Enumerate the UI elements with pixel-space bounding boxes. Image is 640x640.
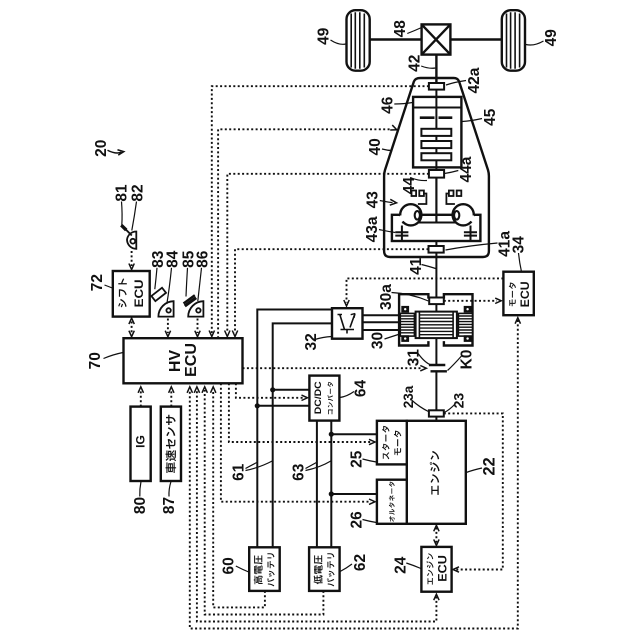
leader 86 [198,268,202,301]
leader 43 with arrow [380,201,393,203]
motor case 30 (top/bottom brackets and sides) [399,294,472,345]
gear element row 4 [421,153,451,160]
leader 80 [140,482,141,497]
svg-text:ECU: ECU [134,279,146,307]
junction dot (272.7,389.8) [270,387,275,392]
leader 42a [446,81,466,86]
leader 30 [385,335,399,340]
signal wire: sensor 23a to engine ECU [444,413,503,569]
stator winding terminals (right, filled squares) [464,306,472,342]
wire: LV line left (DC/DC to battery 62 left terminal) [316,421,318,548]
junction dot (257.3,405.8) [255,403,260,408]
arrowhead into HV ECU (44a line) [225,331,230,337]
wire: HV bus branch to DC/DC upper [273,389,310,391]
leader 64 [340,392,354,398]
arrowhead into HV ECU (motor ECU line) [187,387,192,393]
wire: HV bus branch to DC/DC lower [257,405,309,407]
drive shaft 42 (differential to transaxle) [435,55,437,83]
engine ECU text col1 (エンジン) [426,553,433,584]
signal wire: HV ECU to DC/DC converter [236,383,304,398]
leader 45 [462,119,482,122]
wire: three-phase line 2 (inverter to stator) [363,321,401,323]
shaft segment (rotor to clutch K0) [435,338,437,365]
vehicle speed sensor text (車速センサ) [166,415,177,473]
leader 61 (to both HV bus lines) [246,461,273,471]
signal wire: motor ECU to HV ECU (bottom loop) [190,320,518,629]
svg-text:84: 84 [165,250,182,268]
leader 24 [406,563,421,569]
svg-text:80: 80 [132,497,149,514]
leader 49 left [331,40,346,44]
leader 49 right [526,41,544,45]
leader 85 [186,268,188,297]
brake pedal icon 85/86 [184,295,204,316]
shaft T-bar into damper [402,178,471,223]
arrowhead into DC/DC [302,395,308,400]
leader 46 [394,103,412,105]
shift ECU text col1 (シフト) [118,278,127,307]
signal wire: resolver 30a to motor ECU [444,300,497,302]
wire: HV bus outer (inverter to battery 60 left terminal) [257,310,332,548]
clutch K0 31 (upper plate) [429,364,445,366]
svg-text:45: 45 [482,108,499,126]
output shaft 41 (housing to motor) [435,241,437,294]
arrowhead at clutch K0 [420,366,426,371]
shift lever icon 81/82 [121,225,136,249]
axle shaft (left wheel to differential) [369,38,422,40]
stator (left block with hatching) [400,313,414,336]
engine 22 (box) [407,421,466,524]
motor ECU text col1 (モータ) [509,283,516,307]
wire: LV branch to starter motor [331,433,377,435]
shift ECU 72 (box) [113,271,150,317]
leader 42 [421,66,435,68]
svg-text:30a: 30a [378,284,395,310]
signal wire: accelerator pedal sensors to HV ECU [167,319,169,334]
signal wire: battery 62 monitor to HV ECU [205,390,324,615]
svg-text:44a: 44a [458,156,475,182]
svg-text:42a: 42a [466,67,483,93]
leader 22 [466,468,482,473]
signal wire: sensor 42a to HV ECU [212,86,429,333]
svg-text:20: 20 [93,140,110,157]
axle shaft (differential to right wheel) [450,38,501,40]
svg-text:70: 70 [87,352,104,369]
alternator 26 (box) [377,480,407,524]
svg-text:ECU: ECU [437,555,449,582]
ignition switch IG 80 (box) [131,407,151,481]
leader 23 [444,404,455,413]
leader 62 [340,564,352,572]
damper pulley 43 (left circle) [399,204,421,225]
rotor 30 (laminated core) [416,312,457,339]
svg-text:87: 87 [161,497,178,514]
input shaft inside transaxle [435,89,437,222]
signal wire: vehicle speed sensor to HV ECU [170,390,172,407]
arrowhead into engine ECU right edge [453,567,459,572]
arrowhead into motor ECU bottom [515,318,520,324]
transaxle housing 40 (case outline) [384,78,489,257]
leader 48 [407,28,421,34]
signal wire: battery 60 monitor to HV ECU [213,390,265,607]
leader 26 [363,520,377,523]
svg-text:60: 60 [221,557,238,574]
arrowhead into HV ECU (engine ECU line) [194,387,199,393]
svg-text:41: 41 [408,257,425,275]
signal wire: sensor 44a to HV ECU [227,174,429,333]
leader 83 [155,268,157,289]
inverter IGBT symbol [338,314,356,334]
shaft segment (clutch to sensor 23a) [435,371,437,410]
svg-text:81: 81 [113,184,130,202]
svg-text:34: 34 [511,236,528,254]
svg-text:IG: IG [134,435,148,448]
arrowhead into starter motor [369,439,375,444]
svg-text:32: 32 [303,333,320,350]
DC/DC converter 64 (box) [309,376,339,421]
arrowhead into engine ECU bottom [434,594,439,600]
svg-text:ECU: ECU [520,281,532,307]
engine ECU 24 (box) [421,547,451,592]
arrowhead into inverter top [344,300,349,306]
arrowhead into HV ECU bottom (speed) [169,387,174,393]
leader 72 [105,285,113,288]
alternator text (オルタネータ) [389,482,395,522]
svg-text:DC/DC: DC/DC [313,381,324,414]
arrowhead into HV ECU (battery 60) [211,387,216,393]
svg-text:43: 43 [365,191,382,209]
leader K0 [448,356,462,371]
leader 84 [167,268,172,304]
arrowhead into HV ECU (accel) [165,331,170,337]
starter motor 25 (box) [377,421,407,465]
junction dot (331.3,434.2) [329,432,334,437]
arrowhead onto housing 40 [390,125,398,132]
signal wire: IG to HV ECU [140,390,142,407]
damper pulley 43 (right circle) [453,204,475,225]
svg-text:40: 40 [367,138,384,155]
inverter 32 (box) [332,308,363,339]
svg-text:43a: 43a [364,216,381,242]
leader 34 [519,253,522,272]
rotation sensor 41a [429,246,444,253]
svg-text:HV: HV [167,350,184,373]
high-voltage battery 60 (box) [249,547,280,591]
signal wire: motor ECU to inverter [347,278,504,302]
wheel 49 (left tire) [347,10,370,70]
arrowhead into HV ECU (42a line) [209,331,214,337]
signal wire: engine to engine ECU (bidirectional) [435,528,437,544]
leader 32 [315,337,332,340]
shaft segment (sensor 23a to engine) [435,417,437,421]
clutch plates 43a (left) [395,226,408,242]
svg-text:22: 22 [481,457,499,475]
leader 63 (to both LV lines) [306,461,331,471]
leader 25 [363,459,377,462]
leader 87 [169,482,171,497]
svg-text:61: 61 [231,463,248,481]
motor ECU 34 (box) [503,272,533,316]
svg-text:63: 63 [291,463,308,481]
leader 60 [236,566,249,572]
wire: LV line right (DC/DC to battery 62 right terminal) [330,421,332,548]
differential 48 (box with X) [422,24,451,54]
junction dot (331.3,494) [329,491,334,496]
arrowhead into HV ECU (41a line) [232,331,237,337]
svg-text:72: 72 [89,274,106,291]
DC/DC text col2 (コンバータ) [327,382,333,414]
svg-text:62: 62 [352,554,369,571]
leader 82 [132,202,137,231]
arrowhead into shift ECU top [129,264,134,270]
leader 81 [121,202,124,226]
wire: HV bus inner (inverter to battery 60 right terminal) [273,323,332,547]
leader 44a [445,171,459,174]
leader 43a [379,230,395,233]
leader 41a [446,243,498,250]
stator winding terminals (left, filled squares) [401,306,409,342]
arrowhead into HV ECU (brake) [195,331,200,337]
leader 30a [392,293,429,302]
battery 62 text col1 (低電圧) [314,555,323,584]
leader 23a [412,400,429,412]
resolver 30a (rotor position sensor) [435,294,437,298]
svg-text:46: 46 [379,96,396,114]
gear section 46 (top band divider) [413,107,461,109]
svg-text:86: 86 [195,250,212,268]
gear element row 2 [421,129,451,136]
crank angle sensor 23a [429,410,444,416]
wheel 49 (right tire) [502,10,525,70]
engine 22 label text (エンジン) [430,451,440,495]
rotation sensor 42a [429,83,444,90]
leader 40 [382,149,392,151]
svg-text:31: 31 [406,349,423,367]
signal wire: sensor 41a to HV ECU [235,249,429,333]
wire: three-phase line 3 (inverter to stator) [363,329,401,331]
signal wire: HV ECU to clutch K0 [243,367,422,369]
arrowhead into engine bottom [434,525,439,531]
signal wire: HV ECU to transmission 40 [218,129,391,338]
actuator squares 44 (right pair) [446,191,461,205]
signal wire: HV ECU to starter motor [229,383,371,442]
signal wire: HV ECU to alternator [221,383,371,501]
gear element row 3 [421,141,451,148]
battery 62 text col2 (バッテリ) [327,553,335,586]
leader 44 [412,178,428,181]
svg-text:24: 24 [393,556,410,574]
clutch plates 43a (right) [464,226,477,242]
svg-text:ECU: ECU [183,343,200,377]
gear bars (first row, solid) [420,116,453,119]
arrowhead into HV ECU bottom (IG) [138,387,143,393]
svg-text:42: 42 [406,55,423,72]
accelerator pedal icon 83/84 [151,288,173,317]
svg-text:82: 82 [129,184,146,201]
arrowhead into shift ECU bottom [129,318,134,324]
svg-text:49: 49 [543,29,560,47]
arrowhead into alternator [369,499,375,504]
low-voltage battery 62 (box) [309,547,340,591]
starter motor text col2 (モータ) [394,431,401,456]
leader 31 [417,352,430,365]
starter motor text col1 (スタータ) [382,426,389,459]
actuator squares 44 (left pair) [412,191,427,205]
signal wire: shift lever to shift ECU [131,251,133,266]
clutch mechanism frame (outer rect) [392,215,481,241]
vehicle speed sensor 87 (box) [161,407,181,481]
gear mechanism 45 (outer box) [413,97,461,167]
arrowhead into HV ECU top (shift line) [129,331,134,337]
wire: LV branch to alternator [331,493,377,495]
svg-text:64: 64 [352,380,369,398]
battery 60 text col1 (高電圧) [254,555,263,584]
arrowhead into HV ECU (battery 62) [202,387,207,393]
signal wire: shift ECU to HV ECU (bidirectional) [131,322,133,334]
clutch K0 31 (lower plate) [431,370,447,372]
rotation sensor 44a [429,170,444,178]
HV ECU 70 (box) [124,338,243,383]
svg-text:49: 49 [315,27,332,45]
leader 70 [104,353,124,359]
stator (right block with hatching) [458,313,472,336]
svg-text:23a: 23a [401,385,416,408]
svg-text:48: 48 [392,20,409,38]
arrowhead into motor ECU (30a line) [495,298,501,303]
leader 41 [422,265,436,269]
wire: three-phase line 1 (inverter to stator) [363,314,401,316]
svg-text:K0: K0 [458,350,475,370]
battery 60 text col2 (バッテリ) [267,553,275,586]
arrow of label 20 [108,150,122,153]
svg-text:30: 30 [369,332,386,349]
signal wire: engine ECU to HV ECU (bottom loop) [197,390,437,622]
arrowhead into engine ECU top [434,539,439,545]
signal wire: brake pedal sensors to HV ECU [197,319,199,334]
shaft segment (sensor to rotor) [435,304,437,312]
